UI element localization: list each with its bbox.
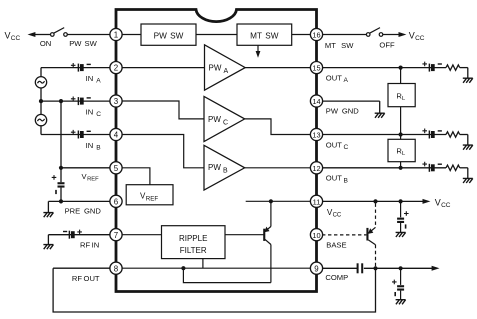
transistor Q2 (external PNP) <box>322 204 376 269</box>
wire PW SW to MT SW <box>196 34 237 36</box>
wire PW C output to pin13 <box>245 119 312 135</box>
svg-text:L: L <box>402 96 406 102</box>
ground VCC decoupling <box>396 232 406 237</box>
svg-text:OFF: OFF <box>379 41 395 50</box>
junction to VREF tie <box>59 99 63 103</box>
svg-text:PW SW: PW SW <box>154 31 184 40</box>
svg-text:RIPPLE: RIPPLE <box>179 234 207 243</box>
wire pin4 to PW B input <box>121 135 204 168</box>
label OUT A <box>326 74 349 85</box>
IC package outline U1 <box>116 10 317 292</box>
svg-text:B: B <box>344 177 349 184</box>
arrow to VCC right <box>423 199 431 204</box>
arrow COMP row <box>432 266 440 271</box>
svg-text:14: 14 <box>312 97 320 106</box>
svg-text:PRE GND: PRE GND <box>65 207 102 216</box>
resistor OUT A <box>446 65 460 70</box>
load resistor RL 1 <box>388 68 415 135</box>
internal VCC rail stub to pin11 <box>246 200 312 202</box>
wire RF OUT row to Q1 collector <box>183 268 271 282</box>
svg-text:7: 7 <box>114 231 118 240</box>
pin 15 <box>310 62 322 74</box>
svg-text:PW: PW <box>208 163 221 172</box>
svg-text:OUT: OUT <box>326 141 342 150</box>
svg-text:IN: IN <box>86 74 94 83</box>
pin 4 <box>110 128 122 140</box>
wire RF IN row <box>48 235 110 245</box>
svg-text:2: 2 <box>114 64 118 73</box>
pin 10 <box>310 229 322 241</box>
svg-text:CC: CC <box>441 202 451 209</box>
junction VCC decoupling <box>399 199 403 203</box>
label OUT B <box>326 174 349 185</box>
wire COMP row pin9 <box>322 267 432 269</box>
wire IN C row <box>41 100 111 102</box>
wire pin5 to VREF block top <box>121 168 150 185</box>
pin 16 <box>310 28 322 40</box>
pin 6 <box>110 195 122 207</box>
ground OUT B <box>463 178 473 183</box>
wire OUT A row <box>322 68 468 79</box>
wire IN A row <box>41 68 111 77</box>
wire pin16 to switch <box>322 34 366 36</box>
wire OUT C row <box>322 135 468 146</box>
resistor OUT B <box>446 165 460 170</box>
wire PW B output to pin12 <box>245 167 312 169</box>
svg-text:A: A <box>344 77 349 84</box>
resistor OUT C <box>446 132 460 137</box>
transistor Q1 (internal PNP) <box>263 201 271 282</box>
svg-text:B: B <box>96 144 101 151</box>
switch PW SW <box>51 28 111 37</box>
svg-text:PW GND: PW GND <box>326 107 359 116</box>
svg-text:B: B <box>223 168 228 175</box>
svg-text:MT SW: MT SW <box>250 31 279 40</box>
capacitor COMP decoupling <box>392 268 404 299</box>
V REF block <box>126 185 173 205</box>
junction Q2 emitter <box>373 199 377 203</box>
wire G1 to node <box>40 88 42 101</box>
wire OUT B row <box>322 168 468 179</box>
wire G2 to IN B row <box>41 126 111 135</box>
ground PW GND <box>375 113 385 118</box>
wire RF OUT row <box>53 267 111 269</box>
svg-text:13: 13 <box>312 131 320 140</box>
arrow to VCC top left <box>28 32 51 37</box>
wire RIPPLE FILTER bottom to RF OUT row <box>202 259 204 269</box>
ground OUT A <box>463 78 473 83</box>
svg-text:MT SW: MT SW <box>325 41 354 50</box>
svg-text:C: C <box>223 119 228 126</box>
op-amp PW C <box>204 96 245 141</box>
capacitor IN A coupling <box>71 63 91 72</box>
wire pin7 to RIPPLE FILTER <box>121 234 162 236</box>
wire PW GND row <box>322 101 380 113</box>
pin 2 <box>110 62 122 74</box>
ground OUT C <box>463 145 473 150</box>
svg-text:1: 1 <box>114 31 118 40</box>
pin 11 <box>310 195 322 207</box>
svg-text:PW: PW <box>209 64 222 73</box>
pin 14 <box>310 95 322 107</box>
svg-text:PW SW: PW SW <box>69 39 97 48</box>
capacitor COMP series <box>357 263 364 273</box>
pin 8 <box>110 262 122 274</box>
label OUT C <box>326 141 349 152</box>
wire pin8 through to pin9 (internal row) <box>121 267 312 269</box>
capacitor OUT A coupling <box>422 62 442 72</box>
junction sources <box>39 99 43 103</box>
svg-text:CC: CC <box>11 35 21 42</box>
load resistor RL 2 <box>388 135 415 168</box>
arrow below MT SW block <box>256 45 261 57</box>
label VCC (pin11) <box>327 208 342 219</box>
label IN B <box>86 141 102 152</box>
wire pin6 row left <box>48 201 110 212</box>
junction RF OUT row <box>181 266 185 270</box>
capacitor IN B coupling <box>71 130 91 139</box>
svg-text:ON: ON <box>40 39 51 48</box>
pin 7 <box>110 229 122 241</box>
junction OUT B <box>399 166 403 170</box>
svg-text:REF: REF <box>87 177 99 183</box>
svg-text:V: V <box>409 31 415 41</box>
svg-text:6: 6 <box>114 197 119 206</box>
junction PRE GND row <box>59 199 63 203</box>
svg-text:OUT: OUT <box>326 174 342 183</box>
pin 13 <box>310 128 322 140</box>
svg-text:FILTER: FILTER <box>180 246 207 255</box>
wire node to VREF row <box>60 101 62 182</box>
pin 1 <box>110 28 122 40</box>
capacitor VCC decoupling <box>397 201 409 232</box>
wire MT SW to pin16 <box>292 34 312 36</box>
junction VREF row <box>59 166 63 170</box>
switch MT SW <box>366 28 382 37</box>
pin 3 <box>110 95 122 107</box>
svg-text:10: 10 <box>312 231 320 240</box>
pin 5 <box>110 162 122 174</box>
VCC label right <box>435 197 451 209</box>
VCC label top left <box>5 31 21 43</box>
svg-text:IN: IN <box>86 107 94 116</box>
svg-text:CC: CC <box>333 213 342 219</box>
capacitor OUT C coupling <box>422 129 442 139</box>
svg-text:16: 16 <box>312 31 320 40</box>
svg-text:A: A <box>224 68 229 75</box>
signal source G2 <box>35 114 46 125</box>
svg-text:CC: CC <box>415 35 425 42</box>
capacitor OUT B coupling <box>422 162 442 172</box>
wire RIPPLE FILTER to Q1 base <box>225 234 264 236</box>
wire PW A output to pin15 <box>245 67 311 69</box>
svg-text:15: 15 <box>312 64 320 73</box>
arrow to VCC top right <box>383 32 407 37</box>
VCC label top right <box>409 31 425 43</box>
svg-text:9: 9 <box>314 264 319 273</box>
svg-text:REF: REF <box>146 195 159 202</box>
junction COMP decoupling <box>399 266 403 270</box>
svg-text:PW: PW <box>208 115 221 124</box>
wire pin5 row left <box>61 167 111 169</box>
op-amp PW B <box>204 145 245 190</box>
junction internal rail / Q1 emitter <box>269 199 273 203</box>
capacitor VREF decoupling <box>52 175 65 194</box>
svg-text:12: 12 <box>312 164 320 173</box>
svg-text:C: C <box>96 111 101 118</box>
ground PRE GND <box>43 213 53 218</box>
wire VCC row pin11 <box>322 200 423 202</box>
svg-text:4: 4 <box>114 131 119 140</box>
junction OUT C <box>399 132 403 136</box>
label IN A <box>86 74 102 85</box>
feedback wire RF OUT to COMP node <box>53 268 375 312</box>
ground RF IN <box>43 245 53 250</box>
pin 12 <box>310 162 322 174</box>
ground COMP decoupling <box>396 300 406 305</box>
svg-text:V: V <box>435 197 441 207</box>
label VREF (pin5) <box>82 172 100 183</box>
capacitor IN C coupling <box>71 97 91 106</box>
PW SW block <box>141 24 196 45</box>
op-amp PW A <box>205 45 246 90</box>
svg-text:BASE: BASE <box>326 240 346 249</box>
junction OUT A <box>399 66 403 70</box>
svg-text:11: 11 <box>313 197 321 206</box>
junction COMP / feedback <box>373 266 377 270</box>
capacitor RF IN coupling <box>63 230 82 239</box>
wire pin2 to PW A input <box>121 67 205 69</box>
signal source G1 <box>35 77 46 88</box>
wire pin1 to PW SW <box>121 34 141 36</box>
svg-text:3: 3 <box>114 97 119 106</box>
svg-text:5: 5 <box>114 164 119 173</box>
svg-text:8: 8 <box>114 264 119 273</box>
svg-text:OUT: OUT <box>326 74 342 83</box>
svg-text:COMP: COMP <box>325 273 348 282</box>
svg-text:RF OUT: RF OUT <box>72 274 100 283</box>
svg-text:V: V <box>5 31 11 41</box>
RIPPLE FILTER block <box>162 226 226 259</box>
MT SW block <box>237 24 292 45</box>
svg-text:RF IN: RF IN <box>80 240 99 249</box>
wire node to G2 <box>40 101 42 115</box>
pin 9 <box>310 262 322 274</box>
svg-text:IN: IN <box>86 141 94 150</box>
wire pin3 to PW C input <box>121 101 204 119</box>
label IN C <box>86 107 102 118</box>
svg-text:A: A <box>96 78 101 85</box>
svg-text:L: L <box>402 151 406 157</box>
svg-text:C: C <box>344 144 349 151</box>
